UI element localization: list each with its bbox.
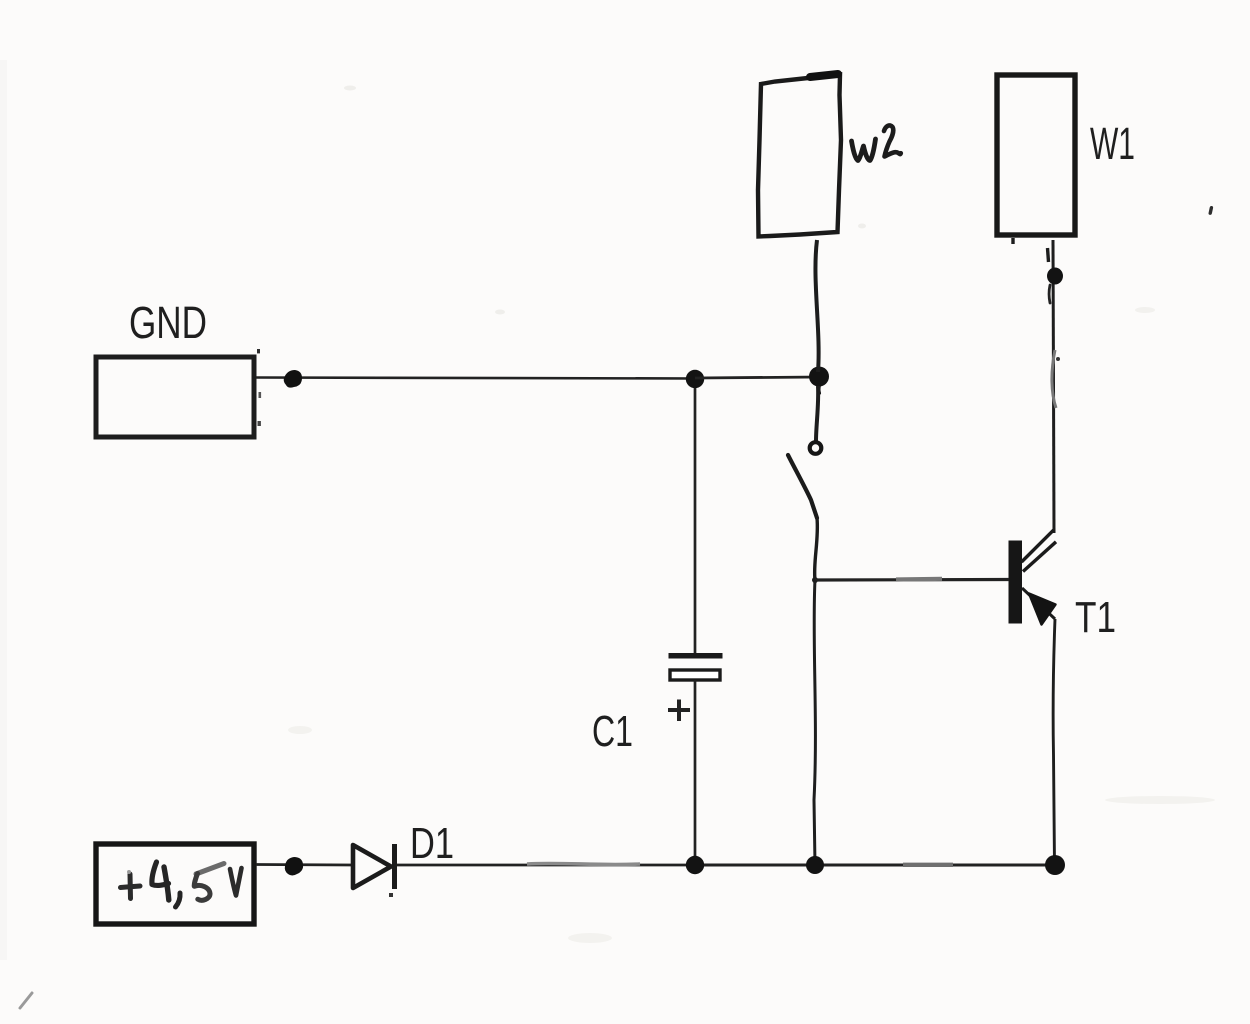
svg-text:W1: W1 <box>1090 119 1135 169</box>
wire base to T1 <box>815 579 1009 580</box>
junction dot C1 bottom <box>686 856 704 874</box>
label +4,5V (handwritten) <box>121 862 242 907</box>
svg-text:C1: C1 <box>592 707 633 756</box>
faint scan smudges <box>288 86 1215 944</box>
wire node A down to C1 <box>694 388 697 653</box>
wire emitter down <box>1053 619 1055 865</box>
junction dot emitter bottom <box>1045 855 1065 875</box>
diode D1 <box>353 844 395 897</box>
base node dot <box>812 577 818 583</box>
node B junction dot <box>809 367 829 394</box>
wire W1 to collector <box>1048 240 1061 533</box>
resistor W1 box <box>997 75 1075 235</box>
wire switch to base node <box>815 518 818 580</box>
wire C1 down to bottom rail <box>694 680 697 858</box>
pin tick under W1 <box>1011 238 1014 244</box>
svg-text:T1: T1 <box>1075 593 1116 642</box>
terminal +4,5V box <box>96 844 254 924</box>
junction blob on W1 wire <box>1047 268 1063 304</box>
label C1 <box>592 707 633 756</box>
wire base node down to bottom rail <box>814 580 815 865</box>
label GND <box>129 298 207 348</box>
wire node A to node B <box>695 377 820 378</box>
junction blob near GND <box>284 370 302 388</box>
junction dot switch bottom <box>806 856 824 874</box>
label D1 <box>410 819 454 868</box>
junction blob near +4,5V <box>285 857 303 876</box>
node A junction dot <box>686 370 704 388</box>
wire W2 to node B <box>815 240 818 372</box>
wire GND to node A <box>256 378 696 379</box>
transistor T1 (PNP) <box>1009 530 1057 625</box>
bottom rail wire <box>695 863 1055 866</box>
switch S1 arm <box>788 455 817 518</box>
wire switch vertical top <box>816 386 818 441</box>
wire D1 to bottom rail <box>397 863 695 865</box>
label W1 <box>1090 119 1135 169</box>
label T1 <box>1075 593 1116 642</box>
wire +4,5V to D1 <box>256 863 353 866</box>
capacitor C1 <box>669 653 723 680</box>
label W2 (handwritten) <box>852 125 901 160</box>
svg-text:D1: D1 <box>410 819 454 868</box>
resistor W2 box (hand drawn) <box>758 74 841 237</box>
svg-text:GND: GND <box>129 298 207 348</box>
terminal GND box <box>96 357 254 437</box>
switch S1 contact circle <box>810 442 822 454</box>
speck marks <box>20 206 1213 1008</box>
plus sign of C1 <box>668 700 690 722</box>
